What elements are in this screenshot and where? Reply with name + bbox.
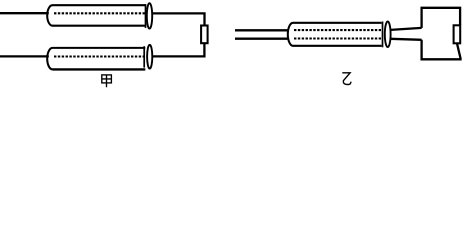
tube L3 upper dashed wire bbox=[294, 29, 381, 31]
wire top-left entry of figure 甲 bbox=[0, 12, 49, 14]
wire bottom-left entry of figure 甲 bbox=[0, 55, 49, 57]
wire tube L3 to loop lower bbox=[391, 39, 422, 40]
loop upper half (figure 乙 external circuit) bbox=[422, 8, 461, 28]
loop lower half bbox=[422, 40, 461, 60]
wire tube L3 to loop upper bbox=[391, 28, 422, 30]
tube L2 right end cap ellipse bbox=[147, 45, 152, 69]
tube L1 body (figure 甲 top coil tube) bbox=[47, 5, 146, 26]
tube L3 right rim line bbox=[382, 22, 384, 48]
tube L1 dashed axis wire bbox=[54, 12, 145, 14]
resistor R2 bbox=[454, 25, 461, 43]
wire from resistor R1 to tube L2 bbox=[152, 44, 204, 57]
tube L3 body (figure 乙 coil tube) bbox=[288, 23, 382, 46]
tube L2 dashed axis wire bbox=[54, 55, 145, 57]
tube L3 lower dashed wire bbox=[294, 37, 381, 39]
wire lower entry of figure 乙 bbox=[235, 38, 289, 40]
tube L1 right rim line bbox=[145, 4, 147, 28]
tube L2 right rim line bbox=[143, 46, 145, 67]
tube L2 body (figure 甲 bottom coil tube) bbox=[47, 48, 145, 70]
label 甲 bbox=[102, 75, 112, 87]
tube L1 right end cap ellipse bbox=[147, 3, 152, 28]
resistor R1 bbox=[201, 26, 208, 44]
tube L3 right end cap ellipse bbox=[385, 22, 391, 48]
wire upper entry of figure 乙 bbox=[235, 29, 289, 31]
label 乙 bbox=[342, 73, 351, 85]
wire from tube L1 to resistor R1 bbox=[152, 13, 205, 24]
